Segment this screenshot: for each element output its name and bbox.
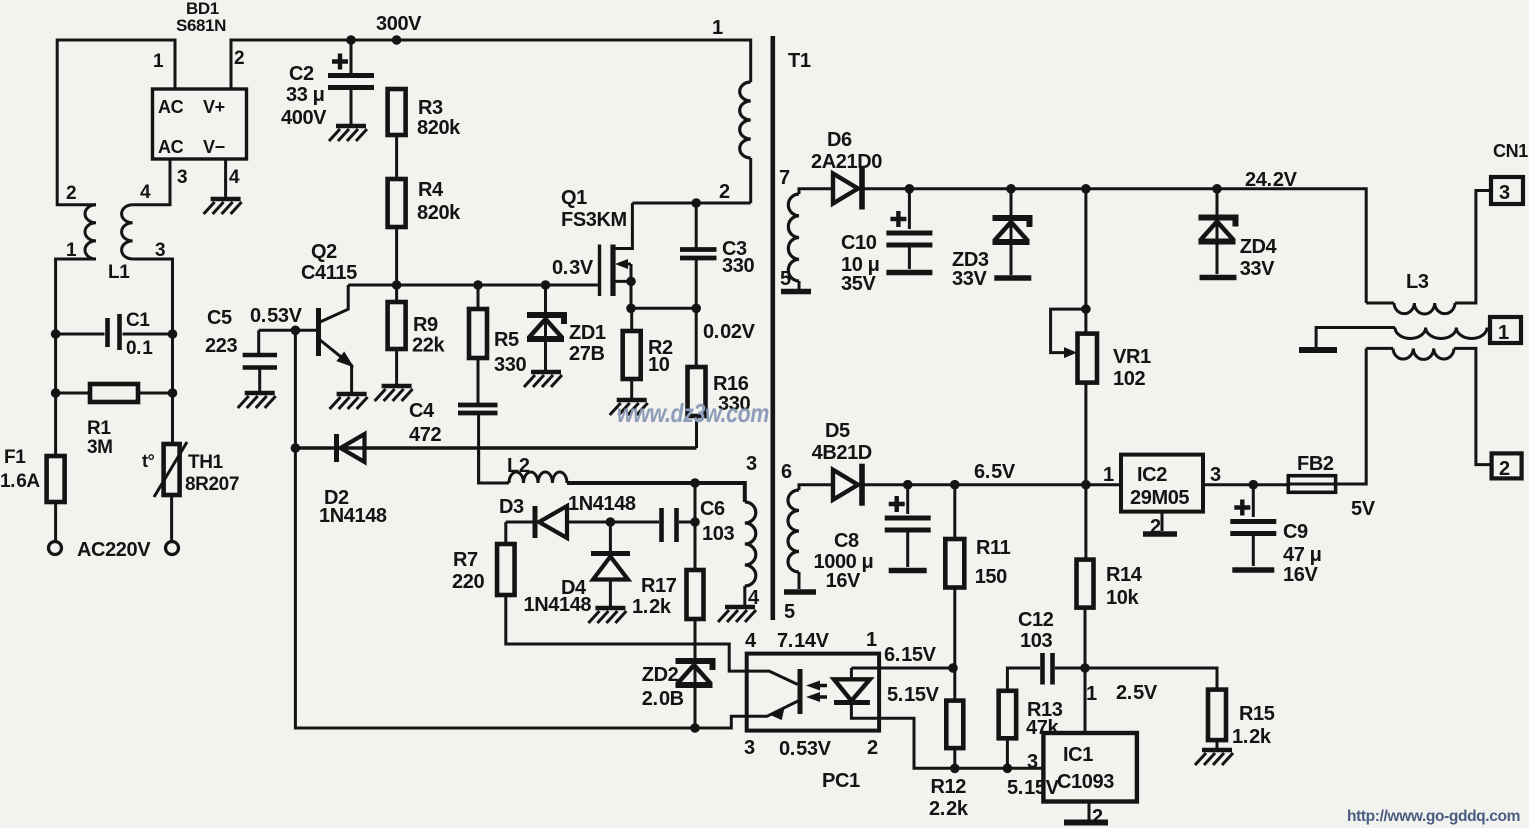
wire C2 top bbox=[350, 40, 353, 76]
ground R2 bbox=[617, 398, 647, 402]
node ZD2 bottom bbox=[690, 723, 700, 733]
wire R9 top bbox=[395, 285, 398, 302]
svg-text:2: 2 bbox=[66, 183, 76, 204]
resistor R7 bbox=[497, 544, 515, 595]
svg-text:472: 472 bbox=[409, 424, 441, 446]
svg-text:C8: C8 bbox=[834, 530, 859, 552]
svg-text:ZD1: ZD1 bbox=[569, 322, 606, 344]
svg-text:2: 2 bbox=[719, 181, 730, 203]
ground ZD1 bbox=[531, 370, 561, 374]
svg-text:0. 1: 0. 1 bbox=[126, 338, 153, 359]
node R5 top bbox=[473, 280, 483, 290]
svg-text:http://www.go-gddq.com: http://www.go-gddq.com bbox=[1347, 808, 1520, 825]
inductor L3 bottom winding bbox=[1393, 348, 1454, 359]
wire C8 bottom bbox=[906, 530, 909, 567]
svg-text:2: 2 bbox=[867, 737, 878, 759]
MOSFET Q1 bbox=[598, 245, 601, 297]
svg-text:C2: C2 bbox=[289, 63, 314, 85]
transformer T1 core bbox=[770, 36, 775, 620]
svg-text:6. 5V: 6. 5V bbox=[974, 461, 1016, 483]
svg-text:3: 3 bbox=[177, 167, 187, 188]
capacitor C12 bbox=[1043, 653, 1053, 685]
optocoupler PC1 light arrows bbox=[812, 686, 827, 698]
svg-text:820k: 820k bbox=[417, 117, 461, 139]
svg-text:CN1: CN1 bbox=[1493, 141, 1528, 161]
wire L1 right bottom bbox=[133, 259, 173, 444]
thermistor TH1 bbox=[164, 444, 180, 495]
wire T1 pin2 bbox=[632, 158, 750, 203]
node C2 top bbox=[346, 35, 356, 45]
ground D4 bbox=[595, 606, 625, 610]
svg-text:2. 2k: 2. 2k bbox=[929, 798, 969, 820]
wire L2 right bbox=[567, 483, 745, 502]
node R12 bottom bbox=[950, 764, 960, 774]
wire R16 top bbox=[695, 308, 698, 367]
node R3 top bbox=[392, 35, 402, 45]
wire R17 top bbox=[694, 522, 697, 570]
svg-text:4: 4 bbox=[229, 167, 240, 188]
svg-text:C1093: C1093 bbox=[1057, 771, 1114, 793]
svg-text:103: 103 bbox=[702, 523, 734, 545]
svg-text:10: 10 bbox=[648, 354, 670, 376]
wire winding7-5 bottom bbox=[798, 281, 801, 289]
terminal pin5 upper bbox=[781, 289, 811, 295]
ground Q2 emitter bbox=[337, 392, 367, 396]
svg-text:5: 5 bbox=[780, 268, 791, 290]
svg-text:223: 223 bbox=[205, 335, 237, 357]
node R14-C12 bbox=[1080, 663, 1090, 673]
svg-text:29M05: 29M05 bbox=[1130, 487, 1189, 509]
svg-text:R16: R16 bbox=[713, 373, 749, 395]
svg-text:C5: C5 bbox=[207, 307, 232, 329]
node 0.53V bbox=[291, 326, 301, 336]
wire R11 bottom bbox=[953, 588, 956, 669]
wire C10 top bbox=[908, 189, 911, 229]
ground ZD4 bbox=[1200, 275, 1237, 281]
wire R12 bottom bbox=[953, 748, 956, 768]
shunt regulator IC1 bbox=[1043, 733, 1137, 802]
svg-text:C10: C10 bbox=[841, 232, 877, 254]
wire IC2 out bbox=[1203, 483, 1288, 486]
svg-text:L2: L2 bbox=[507, 455, 530, 477]
wire winding6 top bbox=[799, 485, 834, 490]
regulator IC2 bbox=[1121, 455, 1203, 512]
node C10 top bbox=[905, 184, 915, 194]
svg-text:R14: R14 bbox=[1106, 564, 1143, 586]
wire R17 bottom bbox=[694, 619, 697, 728]
node ZD1 top bbox=[541, 280, 551, 290]
svg-text:400V: 400V bbox=[281, 107, 327, 129]
wire TH1 to terminal bbox=[170, 495, 173, 541]
svg-text:5V: 5V bbox=[1351, 498, 1376, 520]
wire L3 top right to CN1 pin3 bbox=[1455, 191, 1491, 304]
svg-text:1: 1 bbox=[1103, 464, 1114, 486]
svg-text:0. 53V: 0. 53V bbox=[250, 305, 303, 327]
resistor R17 bbox=[687, 570, 704, 619]
wire L3 top left bbox=[1366, 302, 1394, 305]
svg-text:220: 220 bbox=[452, 571, 484, 593]
resistor R12 bbox=[946, 701, 963, 749]
wire BD1 pin1 to top-left rail bbox=[57, 40, 175, 205]
svg-text:F1: F1 bbox=[4, 447, 26, 468]
svg-text:33 μ: 33 μ bbox=[286, 84, 324, 106]
svg-text:102: 102 bbox=[1113, 368, 1145, 390]
node L2-C6 bbox=[690, 478, 700, 488]
node ZD3 top bbox=[1006, 184, 1016, 194]
svg-text:300V: 300V bbox=[376, 13, 422, 35]
terminal AC right bbox=[166, 542, 179, 555]
svg-text:3: 3 bbox=[746, 453, 757, 475]
node R13 bottom bbox=[1003, 764, 1013, 774]
inductor L2 bbox=[509, 472, 567, 483]
wire VR1 top bbox=[1084, 189, 1087, 334]
svg-text:5. 15V: 5. 15V bbox=[887, 684, 940, 706]
ground R15 bbox=[1202, 748, 1232, 752]
svg-text:ZD4: ZD4 bbox=[1240, 236, 1278, 258]
wire R5 top bbox=[477, 285, 480, 309]
capacitor C10 bbox=[890, 211, 906, 227]
wire gate line bbox=[348, 284, 599, 287]
svg-text:L3: L3 bbox=[1406, 271, 1429, 293]
wire D3 left bbox=[506, 521, 537, 524]
svg-text:Q2: Q2 bbox=[311, 241, 337, 263]
inductor L3 mid winding bbox=[1395, 328, 1487, 339]
wire ZD1 top bbox=[544, 285, 547, 371]
wire C4 bottom bbox=[477, 413, 480, 483]
inductor L1 left winding bbox=[85, 205, 96, 259]
wire PC1 pin2 line bbox=[879, 718, 1043, 768]
node C8 top bbox=[903, 480, 913, 490]
svg-text:L1: L1 bbox=[108, 262, 130, 283]
ground L3 bbox=[1299, 347, 1337, 353]
thermistor TH1 diagonal bbox=[154, 442, 187, 497]
resistor R5 bbox=[469, 309, 487, 358]
svg-text:1: 1 bbox=[1498, 322, 1509, 344]
wire R13 bottom bbox=[1006, 738, 1009, 768]
svg-text:33V: 33V bbox=[952, 268, 987, 290]
svg-text:S681N: S681N bbox=[176, 16, 226, 35]
wire L3 mid left to ground bbox=[1316, 328, 1395, 348]
terminal AC left bbox=[49, 542, 62, 555]
node C3-R16 bbox=[691, 304, 701, 314]
svg-text:8R207: 8R207 bbox=[185, 474, 239, 495]
svg-text:0. 02V: 0. 02V bbox=[703, 321, 756, 343]
wire L3 bottom right to CN1 pin2 bbox=[1454, 348, 1492, 464]
wire BD1 pin2 to 300V rail and T1 pin1 bbox=[231, 40, 751, 89]
svg-text:1N4148: 1N4148 bbox=[319, 505, 387, 527]
resistor R1 bbox=[90, 384, 138, 402]
wire Q2 base bbox=[259, 329, 316, 332]
node D3-D4 bbox=[606, 517, 616, 527]
resistor R2 bbox=[623, 331, 641, 379]
svg-text:3: 3 bbox=[744, 737, 755, 759]
wire feedback vertical bbox=[295, 330, 746, 728]
svg-text:Q1: Q1 bbox=[561, 187, 587, 209]
svg-text:1N4148: 1N4148 bbox=[524, 594, 592, 616]
wire R4 bottom bbox=[395, 227, 398, 285]
svg-text:R11: R11 bbox=[976, 537, 1011, 559]
svg-text:t°: t° bbox=[142, 451, 155, 471]
wire D2 line bbox=[295, 446, 696, 450]
node C6 right bbox=[690, 517, 700, 527]
wire winding4 to ground bbox=[743, 586, 746, 606]
svg-text:V+: V+ bbox=[203, 97, 225, 117]
zener ZD2 bbox=[676, 661, 713, 670]
svg-text:R12: R12 bbox=[931, 776, 967, 798]
resistor R9 bbox=[388, 302, 406, 349]
wire BD1 pin3 to L1 bbox=[133, 158, 170, 205]
svg-text:150: 150 bbox=[975, 566, 1007, 588]
ground C2 bbox=[336, 124, 366, 128]
wire R15 bottom bbox=[1216, 740, 1219, 749]
svg-text:D6: D6 bbox=[827, 129, 852, 151]
svg-text:3: 3 bbox=[1027, 751, 1038, 773]
svg-text:R4: R4 bbox=[418, 179, 444, 201]
node pin2-C3 bbox=[691, 198, 701, 208]
svg-text:820k: 820k bbox=[417, 202, 461, 224]
svg-text:3: 3 bbox=[1210, 464, 1221, 486]
wire 6.5V line bbox=[863, 483, 1121, 486]
wire R11-R12 bbox=[953, 668, 956, 701]
wire C6 right lead bbox=[679, 521, 695, 524]
capacitor C4 bbox=[458, 405, 498, 413]
wire C6 left bbox=[610, 521, 659, 524]
svg-text:D3: D3 bbox=[499, 496, 524, 518]
wire C3 bottom bbox=[695, 258, 698, 308]
node VR1-6.5V bbox=[1081, 480, 1091, 490]
wire D4 bottom bbox=[609, 580, 612, 608]
svg-text:0. 3V: 0. 3V bbox=[552, 257, 594, 279]
wire C12 node to R15 bbox=[1085, 668, 1217, 690]
wire BD1 pin4 to ground bbox=[224, 158, 227, 198]
svg-text:R1: R1 bbox=[87, 418, 111, 439]
svg-text:R3: R3 bbox=[418, 97, 443, 119]
svg-text:1. 6A: 1. 6A bbox=[0, 471, 40, 492]
capacitor C1 bbox=[108, 314, 120, 350]
ground ZD3 bbox=[994, 275, 1031, 281]
wire ZD4 top bbox=[1216, 189, 1219, 274]
svg-text:7. 14V: 7. 14V bbox=[777, 630, 830, 652]
svg-text:R15: R15 bbox=[1239, 703, 1275, 725]
wire D4 top bbox=[609, 522, 612, 551]
svg-text:10k: 10k bbox=[1106, 587, 1139, 609]
capacitor C3 bbox=[680, 250, 717, 259]
svg-text:C9: C9 bbox=[1283, 521, 1308, 543]
capacitor C9 bbox=[1234, 500, 1250, 516]
optocoupler PC1 LED bbox=[850, 668, 853, 679]
transformer T1 primary winding bbox=[740, 82, 751, 158]
svg-text:27B: 27B bbox=[569, 343, 605, 365]
wire R11 top bbox=[953, 485, 956, 539]
wire 24V rail bbox=[863, 189, 1366, 303]
svg-text:16V: 16V bbox=[826, 570, 861, 592]
svg-text:24. 2V: 24. 2V bbox=[1245, 169, 1298, 191]
wire R5 bottom bbox=[477, 358, 480, 403]
wire FB2 right bbox=[1336, 348, 1367, 484]
svg-text:1N4148: 1N4148 bbox=[568, 493, 636, 515]
node C9 top bbox=[1249, 480, 1259, 490]
wire winding7 top bbox=[799, 189, 834, 194]
connector CN1 pin3 bbox=[1491, 177, 1523, 204]
svg-text:C4115: C4115 bbox=[301, 262, 357, 284]
svg-text:4B21D: 4B21D bbox=[812, 442, 872, 464]
svg-text:C6: C6 bbox=[700, 498, 725, 520]
wire C3 top bbox=[695, 203, 698, 249]
ferrite bead FB2 bbox=[1288, 476, 1335, 493]
transformer T1 winding 7-5 bbox=[788, 194, 799, 281]
capacitor C8 bbox=[889, 496, 905, 512]
svg-text:330: 330 bbox=[722, 255, 754, 277]
resistor R16 bbox=[688, 367, 706, 416]
node source-R2 bbox=[626, 304, 636, 314]
svg-text:D5: D5 bbox=[825, 420, 850, 442]
node ZD4 top bbox=[1212, 184, 1222, 194]
wire L3 bottom left bbox=[1366, 347, 1393, 350]
svg-text:R9: R9 bbox=[413, 314, 438, 336]
svg-text:1. 2k: 1. 2k bbox=[1232, 726, 1272, 748]
optocoupler PC1 box bbox=[747, 654, 879, 731]
connector CN1 pin1 bbox=[1490, 317, 1521, 343]
wire source line bbox=[631, 307, 696, 310]
wire IC2 pin2 bbox=[1161, 512, 1164, 531]
wire R14 bottom bbox=[1084, 608, 1087, 733]
bridge rectifier BD1 bbox=[153, 89, 247, 159]
zener ZD1 bbox=[527, 315, 564, 324]
wire R9 bottom bbox=[395, 349, 398, 385]
wire C6 top bbox=[694, 483, 697, 522]
svg-text:2: 2 bbox=[1150, 516, 1161, 538]
svg-text:35V: 35V bbox=[841, 273, 876, 295]
wire C12 left bbox=[1007, 668, 1040, 691]
capacitor C2 bbox=[332, 54, 348, 70]
wire C9 top bbox=[1252, 485, 1255, 517]
resistor R14 bbox=[1077, 560, 1094, 608]
wire C1 right bbox=[123, 333, 173, 336]
svg-text:4: 4 bbox=[140, 182, 151, 203]
terminal pin5 lower bbox=[784, 589, 816, 595]
wire C12 right bbox=[1055, 667, 1085, 670]
svg-text:2: 2 bbox=[234, 48, 244, 69]
svg-text:PC1: PC1 bbox=[822, 770, 860, 792]
wire C5 top bbox=[257, 330, 260, 353]
wire R3-R4 bbox=[395, 135, 398, 179]
node D2 left bbox=[291, 443, 301, 453]
svg-text:2A21D0: 2A21D0 bbox=[811, 151, 882, 173]
svg-text:C12: C12 bbox=[1018, 609, 1054, 631]
transformer T1 winding 6-5 bbox=[788, 490, 799, 572]
wire R16 bottom bbox=[695, 416, 698, 448]
svg-text:1: 1 bbox=[1086, 683, 1097, 705]
node R1 right bbox=[168, 388, 178, 398]
ground R9 bbox=[382, 384, 412, 388]
resistor R11 bbox=[945, 539, 964, 588]
resistor R13 bbox=[999, 691, 1017, 739]
svg-text:AC: AC bbox=[158, 137, 184, 157]
wire L2 left bbox=[479, 448, 509, 483]
inductor L3 top winding bbox=[1394, 303, 1455, 314]
ground BD1 pin4 bbox=[211, 197, 241, 201]
wire C2 bottom bbox=[350, 87, 353, 125]
resistor R15 bbox=[1208, 690, 1226, 741]
svg-text:33V: 33V bbox=[1240, 258, 1275, 280]
wire R7 bottom to PC1 pin4 bbox=[506, 595, 747, 671]
transistor Q2 bbox=[316, 308, 321, 356]
svg-text:V−: V− bbox=[203, 137, 225, 157]
svg-text:AC220V: AC220V bbox=[77, 539, 151, 561]
wire C10 bottom bbox=[908, 245, 911, 269]
wire F1 to terminal bbox=[54, 502, 57, 541]
wire D3 to node bbox=[566, 521, 610, 524]
svg-text:5: 5 bbox=[784, 601, 795, 623]
transformer T1 winding 3-4 bbox=[745, 502, 756, 586]
wire C1 left bbox=[56, 333, 105, 336]
svg-text:1. 2k: 1. 2k bbox=[632, 596, 672, 618]
svg-text:16V: 16V bbox=[1283, 564, 1318, 586]
wire C8 top bbox=[906, 485, 909, 514]
svg-text:IC1: IC1 bbox=[1063, 744, 1093, 766]
svg-text:2. 0B: 2. 0B bbox=[642, 688, 684, 710]
svg-text:7: 7 bbox=[779, 167, 790, 189]
wire PC1 pin1 line bbox=[879, 667, 953, 670]
wire R2 top bbox=[630, 308, 633, 331]
wire VR1 bottom bbox=[1084, 383, 1087, 560]
svg-text:3: 3 bbox=[1499, 182, 1510, 204]
inductor L1 right winding bbox=[122, 205, 133, 259]
svg-text:47 μ: 47 μ bbox=[1283, 544, 1321, 566]
resistor R3 bbox=[388, 89, 406, 135]
ground IC1 bbox=[1064, 820, 1108, 826]
capacitor C6 bbox=[662, 508, 677, 542]
node pin1-R11 bbox=[948, 663, 958, 673]
wire R1 left bbox=[56, 392, 90, 395]
resistor R4 bbox=[388, 179, 406, 227]
svg-text:4: 4 bbox=[745, 630, 757, 652]
ground T1 pin4 bbox=[725, 605, 755, 609]
wire C9 bottom bbox=[1252, 534, 1255, 567]
node VR1 wiper bbox=[1081, 304, 1091, 314]
diode D4 bbox=[591, 551, 630, 556]
svg-text:IC2: IC2 bbox=[1137, 464, 1167, 486]
wire R2 bottom bbox=[630, 379, 633, 398]
svg-text:0. 53V: 0. 53V bbox=[779, 738, 832, 760]
wire IC1 pin2 bbox=[1088, 802, 1091, 821]
zener ZD3 bbox=[993, 218, 1030, 227]
ground C5 bbox=[245, 391, 275, 395]
connector CN1 pin2 bbox=[1492, 453, 1522, 478]
diode D2 bbox=[341, 434, 365, 462]
svg-text:ZD2: ZD2 bbox=[642, 664, 679, 686]
svg-text:6. 15V: 6. 15V bbox=[884, 644, 937, 666]
svg-text:2: 2 bbox=[1092, 806, 1103, 828]
wire C5 bottom bbox=[258, 368, 261, 393]
svg-text:2. 5V: 2. 5V bbox=[1116, 682, 1158, 704]
svg-text:1: 1 bbox=[866, 629, 877, 651]
svg-text:VR1: VR1 bbox=[1113, 346, 1151, 368]
node R11 top bbox=[950, 480, 960, 490]
svg-text:1: 1 bbox=[153, 51, 164, 72]
svg-text:22k: 22k bbox=[412, 335, 445, 357]
svg-text:FB2: FB2 bbox=[1297, 453, 1334, 475]
node R1 left bbox=[51, 388, 61, 398]
node Q1 source bbox=[626, 277, 636, 287]
ground IC2 bbox=[1143, 531, 1177, 537]
svg-text:5. 15V: 5. 15V bbox=[1007, 777, 1060, 799]
svg-text:T1: T1 bbox=[788, 50, 811, 72]
svg-text:2: 2 bbox=[1499, 458, 1510, 480]
wire ZD3 top bbox=[1010, 189, 1013, 275]
svg-text:R17: R17 bbox=[641, 575, 677, 597]
ground C8 bbox=[889, 568, 927, 574]
